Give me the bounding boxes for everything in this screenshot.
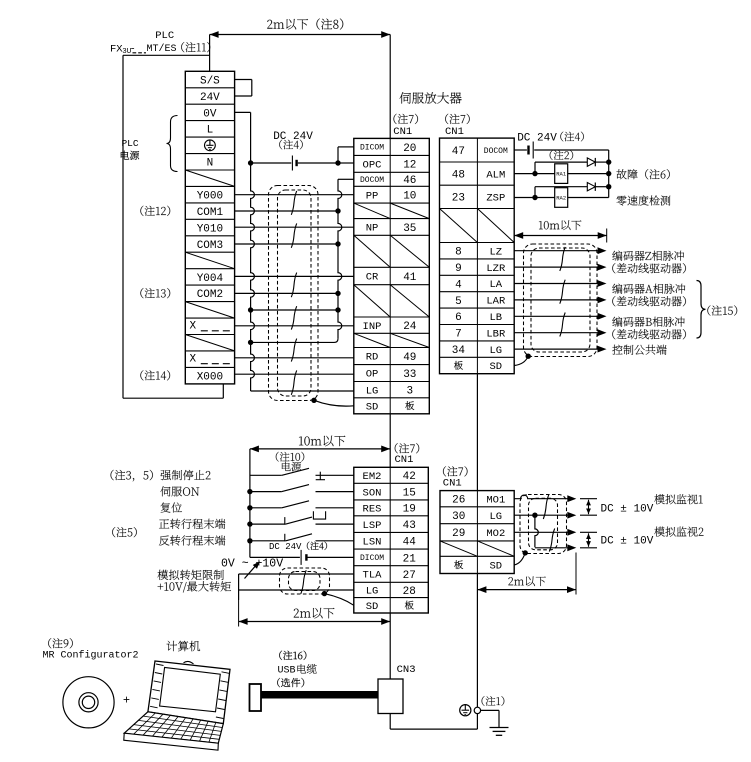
- label +10V/max torque: [158, 581, 231, 592]
- svg-text:+: +: [123, 694, 130, 708]
- CN1 row border: [440, 291, 515, 293]
- svg-text:X: X: [189, 321, 196, 333]
- label 10m以下 right: [539, 220, 581, 230]
- PLC terminal row border 11: [185, 251, 234, 253]
- CN1 row border: [354, 266, 430, 268]
- svg-text:5: 5: [455, 296, 462, 308]
- CN1 block divider: [476, 138, 478, 374]
- wire PLC enclosure bottom: [123, 397, 223, 399]
- shielded twisted pair cable (outer shield, dashed): [269, 186, 319, 401]
- svg-text:34: 34: [452, 345, 466, 357]
- analog monitor cable shield (outer, dashed): [520, 495, 567, 554]
- wire COM3 to DOCOM bus: [235, 243, 338, 245]
- svg-text:0V ~ +10V: 0V ~ +10V: [221, 558, 283, 571]
- twisted pair crossing mark: [291, 306, 296, 329]
- svg-text:CR: CR: [366, 272, 379, 284]
- encoder output wire: [514, 283, 598, 285]
- PLC terminal row border 1: [185, 87, 234, 89]
- label (note7) CN1 right: [445, 114, 469, 124]
- encoder output wire: [514, 332, 598, 334]
- label differential line driver: [612, 296, 686, 306]
- junction dot bus/RES: [247, 505, 252, 510]
- switch LSN (reverse limit): [250, 540, 286, 542]
- svg-text:27: 27: [403, 570, 416, 582]
- CN1 row border: [440, 340, 515, 342]
- CN1 row border: [354, 397, 430, 399]
- label FX3U-MT/ES (note11): [110, 43, 177, 56]
- CN1 row border: [440, 208, 515, 210]
- junction dot DOCOM bus / COM1: [335, 208, 340, 213]
- label encoder Z-phase pulse: [612, 251, 684, 261]
- wire DOCOM to external 24V: [514, 149, 527, 151]
- encoder output wire: [514, 299, 598, 301]
- junction dot battery wire / DOCOM bus: [335, 160, 340, 165]
- svg-text:LG: LG: [366, 385, 379, 397]
- PLC terminal row border 7: [185, 185, 234, 187]
- CN3 connector box: [378, 679, 403, 714]
- wire LG (analog): [239, 589, 354, 591]
- svg-text:49: 49: [403, 352, 416, 364]
- DOCOM bus vertical (hops over signal wires): [338, 179, 342, 338]
- wire COM1 to DOCOM bus: [235, 210, 338, 212]
- svg-text:USB: USB: [278, 666, 296, 677]
- svg-text:29: 29: [452, 528, 465, 540]
- diode D2: [587, 183, 595, 191]
- USB cable (thick): [260, 691, 378, 699]
- empty cell diagonals: [354, 203, 390, 219]
- CN1 row border: [354, 515, 429, 517]
- DOCOM bus bottom turn to 0V bus: [251, 339, 338, 343]
- label fault 故障（注6）: [616, 169, 669, 179]
- svg-text:FX: FX: [110, 43, 123, 55]
- PLC terminal row border 9: [185, 218, 234, 220]
- twisted pair crossing mark: [291, 273, 296, 298]
- svg-text:24: 24: [403, 321, 417, 333]
- encoder output wire: [514, 266, 598, 268]
- PLC terminal row border 8: [185, 202, 234, 204]
- wire MO1 analog monitor 1: [514, 495, 567, 499]
- label (note14): [140, 370, 170, 380]
- analog cable shield (outer, dashed): [280, 568, 330, 594]
- svg-text:ALM: ALM: [486, 169, 505, 181]
- PLC terminal row border 17: [185, 350, 234, 352]
- svg-text:LSN: LSN: [363, 536, 382, 548]
- ground symbol: [490, 727, 509, 729]
- svg-text:3: 3: [406, 386, 413, 398]
- shield drain wire to SD plate: [314, 400, 354, 406]
- encoder cable shield (inner, dashed): [531, 248, 590, 352]
- CN1 row border: [440, 307, 515, 309]
- svg-text:X000: X000: [197, 372, 223, 384]
- svg-text:Y004: Y004: [197, 273, 224, 285]
- label servo amplifier 伺服放大器: [400, 92, 462, 104]
- label encoder A-phase pulse: [612, 284, 685, 294]
- empty cell diagonals: [354, 285, 390, 317]
- svg-text:DC ± 10V: DC ± 10V: [601, 536, 654, 548]
- junction dot DOCOM bus / COM2: [335, 291, 340, 296]
- junction dot diode2 / 24V wire: [606, 184, 611, 189]
- dimension arrow 2m max (monitor): [477, 589, 576, 591]
- LG branch wire (hops MO2): [535, 515, 538, 547]
- analog cable shield (inner, dashed): [289, 572, 321, 591]
- potentiometer wiper arrow: [245, 565, 257, 579]
- twisted pair crossing mark MO2/LG: [549, 529, 554, 552]
- svg-text:15: 15: [403, 488, 416, 500]
- svg-text:23: 23: [452, 193, 465, 205]
- CN1 row border: [354, 218, 430, 220]
- svg-text:8: 8: [455, 247, 462, 259]
- svg-text:LBR: LBR: [486, 328, 506, 340]
- label zero speed detection 零速度检测: [617, 195, 671, 205]
- 24V vertical collector wire: [608, 150, 610, 198]
- CN1 row border: [354, 154, 430, 156]
- shield drain wire from SD plate: [514, 356, 528, 365]
- svg-text:LZR: LZR: [486, 263, 506, 275]
- junction dot bus/LSP: [247, 521, 252, 526]
- svg-text:43: 43: [403, 520, 416, 532]
- servo amplifier CN1 connector block (top mid): [354, 138, 430, 413]
- CN1 row border: [354, 332, 430, 334]
- wire DICOM stub: [338, 146, 354, 148]
- svg-text:NP: NP: [366, 223, 379, 235]
- dimension arrow 10m max (encoder cable): [514, 235, 607, 237]
- svg-text:ZSP: ZSP: [486, 193, 505, 205]
- wire Y004 to CR: [235, 275, 354, 277]
- flywheel diode 2 wire: [535, 186, 587, 188]
- empty cell diagonal (PLC row 14): [185, 302, 234, 319]
- svg-text:COM2: COM2: [197, 289, 223, 301]
- svg-text:OPC: OPC: [363, 160, 382, 172]
- label reverse stroke end: [159, 535, 225, 545]
- svg-text:21: 21: [403, 553, 417, 565]
- CN1 row border: [354, 284, 430, 286]
- label analog monitor 2: [654, 527, 703, 537]
- PLC terminal block outline: [185, 71, 234, 384]
- junction dot RA1 out / 24V wire: [606, 171, 611, 176]
- label 10m以下 left: [299, 436, 345, 447]
- svg-text:MO2: MO2: [486, 528, 505, 540]
- encoder cable shield (outer, dashed): [524, 244, 598, 357]
- CN1 row border: [440, 274, 515, 276]
- wire bus to DICOM via battery: [250, 556, 300, 558]
- svg-text:46: 46: [403, 175, 416, 187]
- empty cell diagonals: [440, 209, 478, 243]
- servo amplifier frame line (left spine): [389, 35, 391, 139]
- battery DC 24V external supply: [527, 146, 529, 155]
- PLC terminal row border 5: [185, 153, 234, 155]
- svg-text:44: 44: [403, 537, 417, 549]
- svg-text:33: 33: [403, 369, 416, 381]
- PLC terminal row border 3: [185, 120, 234, 122]
- relay RA1: [555, 164, 568, 184]
- svg-text:CN1: CN1: [393, 126, 412, 138]
- svg-text:47: 47: [452, 146, 465, 158]
- label (note4): [279, 140, 302, 150]
- svg-text:26: 26: [452, 495, 465, 507]
- svg-text:LA: LA: [489, 279, 502, 291]
- encoder output wire: [514, 348, 598, 350]
- svg-text:DC 24V: DC 24V: [269, 542, 302, 552]
- PLC terminal row border 2: [185, 103, 234, 105]
- svg-text:48: 48: [452, 169, 465, 181]
- flywheel diode 1 wire: [535, 161, 587, 163]
- svg-text:DC ± 10V: DC ± 10V: [601, 504, 654, 516]
- svg-text:28: 28: [403, 586, 416, 598]
- wire ALM output: [514, 173, 555, 175]
- junction dot bus/SON: [247, 489, 252, 494]
- wire DC24V battery to OPC: [251, 162, 292, 164]
- shield drain dot (monitor cable): [523, 550, 528, 555]
- protective earth symbol (circled): [460, 705, 471, 716]
- PLC terminal row border 10: [185, 235, 234, 237]
- svg-text:INP: INP: [363, 321, 382, 333]
- PLC terminal row border 13: [185, 284, 234, 286]
- label 2m以下 bottom mid: [294, 608, 335, 619]
- PLC terminal row border 14: [185, 301, 234, 303]
- PLC terminal row border 18: [185, 366, 234, 368]
- encoder output wire: [514, 250, 598, 252]
- label forward stroke end: [159, 519, 225, 529]
- switch RES (reset) with momentary mark: [250, 507, 282, 509]
- CN1 row border: [354, 316, 430, 318]
- CN1 row border: [354, 171, 430, 173]
- svg-text:DICOM: DICOM: [360, 144, 384, 153]
- CN1 row border: [354, 347, 430, 349]
- label (note15): [707, 305, 737, 315]
- servo amplifier CN1 connector block (bottom mid): [354, 467, 429, 613]
- CN1 row border: [440, 356, 515, 358]
- shield drain wire from SD plate: [514, 553, 525, 565]
- label (note5): [112, 527, 137, 537]
- svg-text:30: 30: [452, 511, 465, 523]
- dimension arrow 2m max (analog input): [239, 621, 391, 623]
- CD-ROM disc icon: [63, 677, 114, 728]
- svg-text:PLC: PLC: [121, 138, 138, 149]
- label (note7) CN1 bottom mid: [395, 443, 419, 453]
- empty cell diagonals: [354, 333, 390, 347]
- CN1 row border: [354, 581, 429, 583]
- CN1 block divider: [476, 491, 478, 574]
- svg-text:42: 42: [403, 471, 416, 483]
- svg-text:MT/ES: MT/ES: [147, 43, 177, 55]
- CN1 row border: [354, 548, 429, 550]
- svg-text:OP: OP: [366, 369, 379, 381]
- wire LG analog common: [514, 514, 567, 516]
- CN1 row border: [440, 324, 515, 326]
- svg-text:L: L: [207, 125, 214, 137]
- wire from FX label down to terminal block S/S: [123, 54, 210, 56]
- shield drain dot (analog): [322, 591, 327, 596]
- dimension arrow 2m max (note8) between PLC and servo amplifier: [210, 34, 391, 36]
- svg-text:MR Configurator2: MR Configurator2: [43, 649, 139, 661]
- svg-text:TLA: TLA: [363, 570, 383, 582]
- encoder output wire: [514, 315, 598, 317]
- label 2m以下 bottom right: [508, 576, 545, 586]
- svg-text:SD: SD: [489, 561, 502, 573]
- svg-text:X: X: [189, 354, 196, 366]
- svg-text:PLC: PLC: [155, 30, 174, 42]
- svg-text:6: 6: [455, 312, 462, 324]
- svg-text:S/S: S/S: [200, 75, 220, 87]
- empty cell diagonal (PLC row 11): [185, 252, 234, 269]
- svg-text:CN1: CN1: [395, 454, 414, 466]
- CN1 row border: [440, 523, 514, 525]
- svg-text:LSP: LSP: [363, 520, 382, 532]
- battery DC 24V (note4) for open collector: [295, 160, 297, 166]
- battery DC 24V input supply: [305, 554, 307, 561]
- CN1 row border: [354, 364, 430, 366]
- svg-text:10: 10: [403, 191, 416, 203]
- svg-text:RES: RES: [363, 504, 382, 516]
- shield drain dot: [311, 398, 316, 403]
- terminal X___ (PLC input): [189, 354, 230, 366]
- svg-text:CN3: CN3: [397, 664, 416, 676]
- svg-text:N: N: [207, 158, 214, 170]
- brace for PLC power terminals: [167, 116, 178, 172]
- label analog monitor 1: [654, 494, 702, 504]
- svg-text:COM3: COM3: [197, 240, 223, 252]
- junction dot diode1 / 24V wire: [606, 159, 611, 164]
- wire ZSP output: [514, 197, 555, 199]
- pin plate 板: [405, 401, 414, 410]
- label (note2): [550, 150, 573, 160]
- PLC terminal row border 16: [185, 334, 234, 336]
- twisted pair crossing mark: [560, 280, 565, 304]
- switch SON (servo-on): [250, 491, 282, 493]
- svg-text:RA2: RA2: [556, 194, 566, 201]
- svg-text:CN1: CN1: [445, 126, 464, 138]
- measurement bracket DC +/-10V: [580, 531, 597, 533]
- link wire S/S to 24V: [235, 79, 252, 81]
- wire Y000 to PP: [235, 194, 354, 196]
- svg-text:PP: PP: [366, 190, 379, 202]
- wire X to INP: [235, 325, 354, 327]
- input common bus vertical: [249, 449, 251, 558]
- wire X to RD: [235, 357, 354, 359]
- bottom frame wire: [389, 714, 391, 730]
- twisted pair crossing mark MO1/LG: [543, 495, 548, 519]
- measurement bracket DC +/-10V: [580, 498, 597, 500]
- svg-text:12: 12: [403, 160, 416, 172]
- svg-text:Y000: Y000: [197, 191, 223, 203]
- svg-text:MO1: MO1: [486, 494, 505, 506]
- svg-text:SD: SD: [366, 601, 379, 613]
- label input descriptions: [111, 470, 211, 482]
- PLC terminal row border 6: [185, 169, 234, 171]
- label analog torque limit: [158, 570, 224, 580]
- svg-text:SD: SD: [489, 361, 502, 373]
- label (note12): [140, 206, 170, 216]
- shield drain dot (encoder cable): [526, 354, 531, 359]
- label servo-on: [160, 486, 199, 496]
- dimension arrow 10m max (digital input wiring): [250, 448, 390, 450]
- junction dot bus/LSN: [247, 538, 252, 543]
- svg-text:CN1: CN1: [443, 478, 462, 490]
- svg-text:24V: 24V: [200, 92, 220, 104]
- empty cell diagonals: [440, 541, 477, 556]
- svg-text:SON: SON: [363, 487, 382, 499]
- switch EM2 (forced stop, NC contact): [250, 474, 282, 476]
- svg-text:DICOM: DICOM: [360, 554, 384, 563]
- empty cell diagonal (PLC row 16): [185, 335, 234, 351]
- servo amplifier frame line (right spine): [476, 374, 478, 491]
- svg-text:RA1: RA1: [556, 171, 567, 178]
- PLC terminal row border 12: [185, 268, 234, 270]
- wire PLC enclosure left boundary: [122, 55, 124, 398]
- twisted pair crossing mark: [291, 191, 296, 215]
- servo amplifier CN1 connector block (top right): [440, 138, 515, 374]
- CN1 row border: [440, 184, 515, 186]
- svg-text:19: 19: [403, 504, 416, 516]
- label (note16) USB cable: [279, 651, 306, 660]
- switch LSP (forward limit): [250, 523, 286, 525]
- svg-text:SD: SD: [366, 402, 379, 414]
- brace (note15): [697, 281, 706, 339]
- CN1 row border: [354, 381, 430, 383]
- svg-text:35: 35: [403, 223, 416, 235]
- twisted pair crossing mark: [560, 247, 565, 271]
- svg-text:4: 4: [455, 279, 462, 291]
- PLC terminal row border 15: [185, 317, 234, 319]
- twisted pair crossing mark: [560, 313, 565, 337]
- junction dot ZSP / diode2: [532, 195, 537, 200]
- label (note10) power 电源: [276, 452, 304, 462]
- CN1 row border: [354, 531, 429, 533]
- svg-text:LZ: LZ: [489, 246, 502, 258]
- svg-text:DC 24V: DC 24V: [273, 131, 313, 143]
- wire MO2 analog monitor 2: [514, 531, 567, 533]
- potentiometer left end: [238, 574, 240, 600]
- PLC terminal row border 4: [185, 136, 234, 138]
- CN1 row border: [354, 597, 429, 599]
- CN1 row border: [440, 506, 514, 508]
- CN1 row border: [354, 482, 429, 484]
- terminal X___ (PLC input): [189, 321, 230, 333]
- CN1 block divider: [389, 138, 391, 413]
- svg-text:LG: LG: [366, 586, 379, 598]
- svg-text:LAR: LAR: [486, 296, 506, 308]
- pin plate 板: [454, 560, 463, 569]
- label (note13): [140, 288, 170, 298]
- svg-text:DC 24V: DC 24V: [517, 133, 557, 145]
- pin plate 板: [405, 601, 414, 610]
- CN1 row border: [354, 234, 430, 236]
- svg-text:LG: LG: [489, 345, 502, 357]
- label 2m以下（注8）: [267, 18, 343, 29]
- wire X000 to OP: [235, 373, 354, 375]
- twisted pair crossing mark: [301, 570, 306, 594]
- pin plate 板: [454, 361, 463, 370]
- shielded twisted pair cable (inner boundary, dashed): [278, 190, 312, 396]
- wire 0V to DC bus: [235, 111, 251, 113]
- wire COM2 to DOCOM bus: [235, 292, 338, 294]
- laptop computer icon: [124, 661, 230, 750]
- junction dot 0V bus / rung2: [248, 340, 253, 345]
- label (note1): [482, 696, 505, 706]
- junction dot 0V bus / rung1: [248, 307, 253, 312]
- empty cell diagonal (PLC row 6): [185, 170, 234, 186]
- ground wire: [481, 709, 499, 711]
- label reset 复位: [161, 502, 182, 512]
- wire DOCOM stub: [338, 178, 354, 180]
- twisted pair crossing mark: [291, 223, 296, 247]
- label computer 计算机: [167, 641, 201, 651]
- CN1 row border: [440, 258, 515, 260]
- wire rung 0V bus to DOCOM bus: [251, 309, 338, 311]
- label encoder B-phase pulse: [612, 317, 684, 327]
- svg-text:0V: 0V: [203, 108, 217, 120]
- USB connector: [250, 684, 262, 711]
